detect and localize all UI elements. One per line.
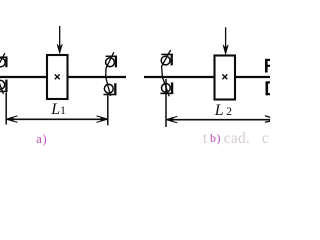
dimension extension line right (a)	[107, 95, 109, 125]
label L2	[215, 103, 232, 119]
dimension extension line left (b)	[165, 79, 167, 127]
dimension line L1	[6, 118, 108, 120]
cropped bold glyph bottom right (E fragment)	[266, 81, 270, 95]
dimension extension line left (a)	[5, 93, 7, 125]
wire shaft A left segment	[0, 76, 47, 78]
label L1	[51, 102, 66, 118]
dimension arrowhead right (a)	[97, 116, 108, 123]
wire shaft B left segment	[144, 76, 214, 78]
dimension line L2	[166, 119, 270, 121]
node x mark (shaft center b)	[222, 74, 227, 79]
dimension arrowhead left (a)	[6, 116, 17, 123]
bearing B-left	[160, 50, 173, 96]
label a) magenta	[36, 132, 47, 147]
load arrow F (figure b)	[223, 27, 228, 54]
wire shaft B right segment	[235, 76, 270, 78]
load arrow F (figure a)	[57, 26, 62, 54]
watermark t..cad. c	[203, 130, 207, 148]
load block (gear) A	[47, 55, 68, 99]
load block (gear) B	[215, 56, 236, 100]
cropped bold glyph top right (F fragment)	[266, 59, 271, 73]
wire shaft A right segment	[68, 76, 126, 78]
node x mark (shaft center a)	[55, 74, 60, 79]
dimension arrowhead right (b, cropped at edge)	[265, 116, 276, 123]
bearing A-right	[103, 52, 117, 96]
dimension arrowhead left (b)	[166, 116, 177, 123]
label b) magenta	[210, 131, 221, 146]
bearing A-left (cropped at image edge)	[0, 53, 8, 94]
